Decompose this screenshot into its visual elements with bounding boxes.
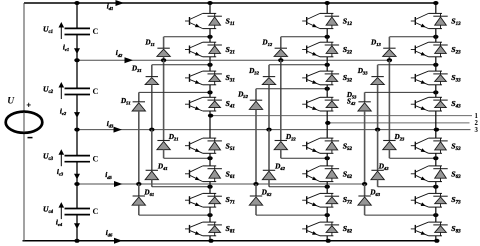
svg-text:S11: S11 bbox=[226, 17, 235, 28]
svg-text:Uc3: Uc3 bbox=[43, 152, 54, 163]
svg-text:S41: S41 bbox=[226, 99, 235, 110]
svg-text:D51: D51 bbox=[120, 97, 131, 106]
svg-text:1: 1 bbox=[475, 113, 479, 120]
svg-text:S51: S51 bbox=[226, 141, 235, 152]
svg-text:U: U bbox=[7, 97, 15, 107]
svg-text:S12: S12 bbox=[343, 17, 353, 28]
svg-text:S23: S23 bbox=[451, 45, 461, 56]
svg-text:ic1: ic1 bbox=[63, 44, 69, 53]
svg-text:S53: S53 bbox=[451, 141, 461, 152]
svg-text:S82: S82 bbox=[343, 224, 353, 235]
svg-text:D43: D43 bbox=[378, 163, 390, 172]
svg-text:C: C bbox=[93, 27, 99, 36]
svg-text:D61: D61 bbox=[143, 188, 154, 197]
svg-text:D62: D62 bbox=[261, 188, 273, 197]
svg-text:S32: S32 bbox=[343, 73, 353, 84]
svg-text:+: + bbox=[26, 100, 31, 109]
svg-text:Uc1: Uc1 bbox=[43, 24, 53, 35]
svg-text:D33: D33 bbox=[357, 67, 369, 76]
svg-text:D42: D42 bbox=[274, 163, 286, 172]
svg-text:S21: S21 bbox=[226, 45, 235, 56]
svg-text:id3: id3 bbox=[107, 120, 114, 129]
svg-text:D12: D12 bbox=[261, 39, 273, 48]
svg-text:S52: S52 bbox=[343, 141, 353, 152]
svg-text:ic2: ic2 bbox=[60, 108, 67, 117]
svg-text:S13: S13 bbox=[451, 17, 461, 28]
svg-text:id2: id2 bbox=[116, 49, 123, 58]
svg-text:id5: id5 bbox=[105, 171, 112, 180]
svg-text:D11: D11 bbox=[144, 39, 155, 48]
svg-text:S61: S61 bbox=[226, 170, 235, 181]
svg-text:D22: D22 bbox=[285, 133, 297, 142]
svg-text:S63: S63 bbox=[451, 170, 461, 181]
svg-text:S83: S83 bbox=[451, 224, 461, 235]
svg-text:D23: D23 bbox=[394, 133, 406, 142]
svg-text:id1: id1 bbox=[107, 3, 114, 12]
svg-text:D41: D41 bbox=[157, 163, 168, 172]
svg-text:D52: D52 bbox=[237, 91, 249, 100]
svg-text:S33: S33 bbox=[451, 73, 461, 84]
svg-text:S22: S22 bbox=[343, 45, 353, 56]
svg-text:C: C bbox=[93, 154, 99, 163]
svg-text:Uc4: Uc4 bbox=[43, 205, 54, 216]
svg-text:S73: S73 bbox=[451, 195, 461, 206]
svg-text:S62: S62 bbox=[343, 170, 353, 181]
svg-text:id6: id6 bbox=[106, 229, 113, 238]
svg-text:S43: S43 bbox=[451, 99, 461, 110]
svg-text:ic3: ic3 bbox=[57, 168, 64, 177]
svg-text:S72: S72 bbox=[343, 195, 353, 206]
svg-text:D31: D31 bbox=[131, 65, 142, 74]
svg-text:D32: D32 bbox=[248, 67, 260, 76]
svg-text:S81: S81 bbox=[226, 224, 235, 235]
svg-text:ic4: ic4 bbox=[56, 219, 63, 228]
svg-text:C: C bbox=[93, 87, 99, 96]
svg-text:Uc2: Uc2 bbox=[43, 84, 54, 95]
svg-text:S31: S31 bbox=[226, 73, 235, 84]
svg-text:D63: D63 bbox=[369, 188, 381, 197]
svg-text:S71: S71 bbox=[226, 195, 235, 206]
svg-text:D21: D21 bbox=[168, 133, 179, 142]
svg-text:3: 3 bbox=[475, 127, 479, 134]
svg-text:C: C bbox=[93, 207, 99, 216]
svg-text:D13: D13 bbox=[370, 39, 382, 48]
